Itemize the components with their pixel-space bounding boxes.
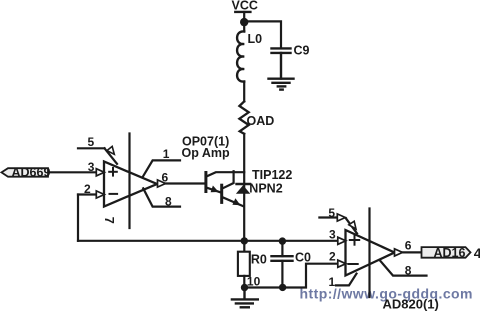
svg-text:4: 4 [474,245,480,261]
svg-text:C0: C0 [295,250,311,264]
wire VCC junction to L0 [243,22,245,32]
svg-text:8: 8 [405,264,412,278]
svg-text:Op Amp: Op Amp [182,146,231,160]
svg-text:2: 2 [84,182,91,196]
wire bottom node to AD820 pin3 [78,240,338,242]
op-amp U2 power line [368,209,370,298]
feedback wire pin2 to bottom node [77,195,79,241]
wire U1 output to Q1 base [165,182,205,184]
svg-text:C9: C9 [294,44,310,58]
node C0 top junction [279,237,286,244]
svg-text:10: 10 [247,275,261,289]
capacitor C9 [272,48,291,78]
resistor R0 [238,241,250,288]
node VCC junction [240,18,248,26]
diode D1 (TIP122 internal) [236,184,250,194]
svg-text:NPN2: NPN2 [249,181,282,195]
wire bottom node to pin2 riser [244,264,338,288]
svg-text:5: 5 [328,206,335,220]
svg-text:3: 3 [88,160,95,174]
svg-text:OAD: OAD [247,114,275,128]
wire U2 output to AD16 flag [402,251,422,253]
U1 pin 8 stub [143,188,180,206]
ground under C9 [269,79,294,90]
U2 output arrow pin 6 [395,249,403,256]
port flag AD16 [422,247,471,258]
U2 pin 2 input arrow [338,260,346,267]
U1 output arrow pin 6 [158,180,166,187]
svg-text:AD820(1): AD820(1) [383,297,439,311]
U1 plus sign [109,168,117,176]
svg-text:6: 6 [162,171,169,185]
svg-text:1: 1 [163,147,170,161]
svg-text:TIP122: TIP122 [252,168,292,182]
svg-text:6: 6 [405,239,412,253]
op-amp U1 power line pin7 [128,134,130,229]
U1 pin 2 input wire [78,191,104,198]
U2 minus sign [348,263,357,265]
U1 pin 3 input wire [49,169,105,176]
wire L0 to LOAD [243,82,245,102]
U1 minus sign [110,193,118,195]
U2 plus sign [350,235,359,244]
svg-text:7: 7 [102,217,117,224]
resistor LOAD zigzag [239,101,248,133]
U1 pin 1 stub [143,160,180,176]
svg-text:R0: R0 [251,253,267,267]
ground bottom [232,288,258,308]
node bottom junction rail [241,237,248,244]
svg-text:5: 5 [88,135,95,149]
U2 pin 1 stub [336,274,357,286]
svg-text:VCC: VCC [232,0,258,12]
wire LOAD to collector rail [243,134,245,242]
capacitor C0 [272,241,293,288]
svg-text:AD16: AD16 [434,246,466,260]
svg-text:L0: L0 [248,32,263,46]
port flag AD669 [2,168,49,177]
VCC power symbol [235,12,250,22]
svg-text:8: 8 [165,195,172,209]
U2 pin 3 input arrow [338,237,346,244]
inductor L0 [237,31,244,81]
svg-text:3: 3 [329,228,336,242]
op-amp U2 AD820 triangle [346,230,395,276]
svg-text:2: 2 [329,250,336,264]
op-amp U1 OP07 triangle [104,162,157,207]
U2 pin 5 stub [319,214,357,234]
node R0 bottom junction [241,284,248,291]
node C0 bottom junction [279,284,286,291]
U1 pin 5 stub [78,146,117,163]
U2 pin 8 stub [380,261,426,276]
svg-text:1: 1 [329,275,336,289]
wire VCC to C9 [244,21,281,48]
svg-text:AD669: AD669 [12,165,51,179]
transistor Q1 (darlington input) [206,172,244,192]
transistor Q2 (darlington output) [222,171,244,206]
